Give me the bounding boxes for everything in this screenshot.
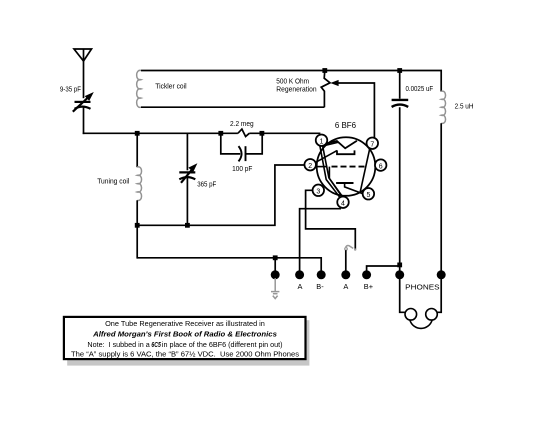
ground symbol — [271, 278, 279, 299]
svg-text:6 BF6: 6 BF6 — [335, 121, 357, 130]
plate — [324, 141, 357, 149]
junction — [218, 131, 223, 136]
svg-text:2: 2 — [308, 163, 312, 170]
antenna — [74, 49, 92, 98]
svg-text:Tickler coil: Tickler coil — [155, 81, 187, 90]
svg-text:B+: B+ — [364, 282, 373, 291]
grid support to pin4 — [329, 167, 342, 198]
cathode — [336, 182, 353, 184]
wire — [83, 108, 85, 135]
grid cap bracket — [337, 150, 355, 154]
pin numbers 1-7 — [308, 138, 383, 207]
potentiometer 500K regeneration (right edge of box) — [321, 71, 330, 108]
svg-text:1: 1 — [320, 138, 324, 145]
tube envelope U1 — [317, 137, 376, 196]
pin 6 — [375, 159, 387, 171]
resistor R1 2.2 meg — [238, 129, 249, 136]
wire pin4 to terminal A — [300, 209, 341, 275]
svg-text:PHONES: PHONES — [405, 282, 439, 291]
svg-text:B-: B- — [316, 282, 324, 291]
tuning coil L1 — [136, 133, 138, 167]
ground terminal — [271, 270, 280, 279]
switch S1 — [346, 246, 354, 249]
terminal phones right — [437, 270, 446, 279]
tube internals 6BF6 — [315, 141, 370, 199]
tickler coil L2 box — [141, 70, 325, 72]
junction — [322, 68, 327, 73]
phone jack right — [426, 309, 438, 321]
wire to left phone jack — [400, 275, 406, 313]
svg-text:7: 7 — [370, 141, 374, 148]
pin 1 — [316, 134, 328, 146]
junction — [273, 255, 278, 260]
pin circles — [304, 134, 386, 208]
capacitor C2 100 pF — [221, 133, 262, 154]
lead pin7 — [360, 149, 370, 192]
note box — [67, 320, 309, 365]
wire top rail right — [325, 71, 441, 92]
svg-text:in place of the 6BF6 (differen: in place of the 6BF6 (different pin out) — [162, 340, 283, 349]
svg-text:0.0025 uF: 0.0025 uF — [406, 84, 434, 93]
variable capacitor C3 365 pF — [186, 133, 188, 170]
svg-text:A: A — [298, 282, 303, 291]
wire tank bottom rail — [137, 165, 305, 225]
lead pin2 to bracket — [315, 151, 337, 163]
svg-text:A: A — [343, 282, 348, 291]
svg-text:3: 3 — [316, 189, 320, 196]
pin 4 — [337, 196, 349, 208]
svg-text:9-35 pF: 9-35 pF — [60, 85, 81, 94]
terminal A2 — [341, 270, 350, 279]
svg-text:2.2 meg: 2.2 meg — [230, 119, 254, 128]
capacitor C4 0.0025 uF — [399, 71, 401, 99]
wire B+ — [367, 266, 400, 275]
svg-text:6: 6 — [379, 163, 383, 170]
wire ground drop — [274, 258, 276, 275]
svg-text:The “A” supply is 6 VAC, the “: The “A” supply is 6 VAC, the “B” 67½ VDC… — [71, 350, 299, 359]
junction — [185, 223, 190, 228]
wiper arrow wire to pin 7 — [338, 83, 375, 138]
grid G1 — [315, 166, 328, 168]
variable capacitor C1 9-35 pF — [73, 98, 91, 112]
svg-text:100 pF: 100 pF — [232, 164, 253, 173]
junction — [397, 68, 402, 73]
junction — [260, 131, 265, 136]
phones connecting arc — [410, 320, 432, 328]
svg-text:One Tube Regenerative Receiver: One Tube Regenerative Receiver as illust… — [105, 319, 265, 328]
svg-text:4: 4 — [341, 200, 345, 207]
svg-text:365 pF: 365 pF — [197, 180, 216, 189]
inductor L3 2.5 uH — [441, 91, 445, 123]
internal leads pin1 — [320, 146, 341, 198]
junction — [135, 131, 140, 136]
terminal phones left — [395, 270, 404, 279]
wire pin3 to switch — [306, 190, 356, 249]
svg-text:Alfred Morgan's First Book of: Alfred Morgan's First Book of Radio & El… — [92, 329, 277, 338]
phone jack left — [405, 309, 417, 321]
svg-text:2.5 uH: 2.5 uH — [455, 101, 474, 110]
terminal A1 — [295, 270, 304, 279]
terminal B- — [317, 270, 326, 279]
junction — [135, 223, 140, 228]
wire to right phone jack — [437, 275, 441, 313]
terminal B+ — [362, 270, 371, 279]
svg-text:Tuning coil: Tuning coil — [97, 177, 129, 186]
pin 2 — [304, 159, 316, 171]
terminal labels A B- A B+ — [298, 282, 373, 291]
pin 5 — [363, 188, 375, 200]
wire ground rail to B- — [137, 258, 321, 275]
pin 3 — [313, 185, 325, 197]
svg-text:6C5: 6C5 — [151, 340, 161, 349]
svg-text:5: 5 — [366, 192, 370, 199]
wire top rail — [83, 132, 238, 134]
pin 7 — [367, 137, 379, 149]
terminal dots — [271, 270, 446, 279]
wire — [249, 132, 320, 134]
svg-text:Regeneration: Regeneration — [276, 85, 316, 94]
svg-text:Note: I subbed in a: Note: I subbed in a — [87, 340, 150, 349]
junction — [397, 263, 402, 268]
